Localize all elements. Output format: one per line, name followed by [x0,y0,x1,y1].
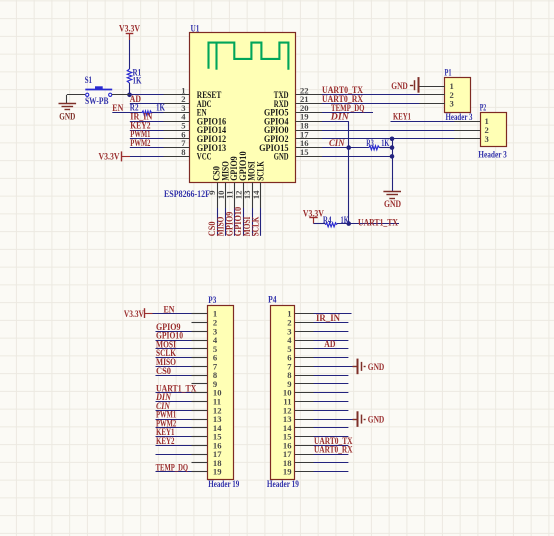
svg-text:U1: U1 [191,25,200,35]
svg-text:19: 19 [283,467,292,477]
svg-text:P3: P3 [208,296,216,306]
svg-text:EN: EN [112,103,123,113]
svg-text:V3.3V: V3.3V [99,153,120,163]
svg-text:1K: 1K [133,76,142,86]
svg-text:EN: EN [164,304,175,314]
svg-text:Header 19: Header 19 [267,479,299,489]
svg-text:Header 3: Header 3 [446,112,473,122]
svg-text:1K: 1K [156,103,165,113]
svg-text:1K: 1K [341,215,349,225]
svg-text:IR_IN: IR_IN [316,313,340,323]
svg-text:Header 3: Header 3 [478,150,507,160]
svg-text:V3.3V: V3.3V [124,310,144,320]
svg-text:SCLK: SCLK [251,217,261,237]
svg-text:CIN: CIN [329,138,345,148]
svg-text:Header 19: Header 19 [208,479,239,489]
svg-text:UART1_TX: UART1_TX [358,217,398,227]
svg-text:AD: AD [324,339,336,349]
svg-text:GND: GND [368,362,385,372]
svg-text:KEY1: KEY1 [393,112,411,122]
svg-text:GND: GND [274,152,289,162]
svg-text:SW-PB: SW-PB [85,96,109,106]
svg-text:P4: P4 [268,295,277,305]
svg-text:3: 3 [450,99,454,109]
svg-text:R4: R4 [323,215,332,225]
svg-text:P1: P1 [445,68,452,78]
svg-text:S1: S1 [85,75,93,85]
svg-text:KEY2: KEY2 [156,436,175,446]
svg-text:R3: R3 [366,138,374,148]
svg-text:P2: P2 [480,104,487,114]
svg-text:GND: GND [391,81,408,91]
svg-text:1K: 1K [381,138,389,148]
svg-text:19: 19 [213,467,222,477]
svg-text:ESP8266-12F: ESP8266-12F [164,190,210,200]
svg-text:14: 14 [251,190,261,199]
svg-text:GND: GND [59,111,75,121]
svg-text:DIN: DIN [330,112,350,122]
svg-text:15: 15 [300,147,309,157]
svg-text:TEMP_DQ: TEMP_DQ [156,463,189,473]
svg-text:CS0: CS0 [156,366,171,376]
svg-text:PWM2: PWM2 [130,138,151,148]
svg-text:8: 8 [181,147,186,157]
svg-text:GND: GND [384,199,401,209]
svg-text:UART0_RX: UART0_RX [314,445,353,455]
svg-text:SCLK: SCLK [255,161,265,181]
svg-text:VCC: VCC [197,152,212,162]
svg-text:3: 3 [485,134,489,144]
svg-text:GND: GND [368,414,385,424]
